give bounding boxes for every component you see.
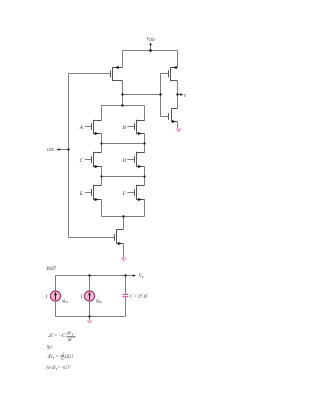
svg-text:E: E [79, 192, 83, 197]
svg-text:dVY: dVY [67, 331, 75, 337]
svg-text:M01: M01 [61, 299, 69, 304]
svg-text:CLK: CLK [47, 147, 54, 152]
svg-text:I: I [45, 295, 48, 300]
svg-text:VDD: VDD [146, 37, 155, 42]
svg-text:A: A [79, 126, 84, 131]
svg-text:C = 25 fF: C = 25 fF [130, 293, 148, 298]
svg-text:(2I) t: (2I) t [65, 354, 74, 360]
svg-text:M08: M08 [95, 299, 103, 304]
svg-text:F: F [122, 192, 127, 197]
svg-text:ΔVY = −: ΔVY = − [47, 355, 62, 360]
svg-text:D: D [121, 159, 126, 164]
svg-text:2I = −C: 2I = −C [48, 334, 65, 339]
svg-text:dt: dt [68, 337, 72, 342]
svg-text:I: I [80, 295, 83, 300]
svg-text:16.67: 16.67 [46, 266, 57, 272]
svg-text:For ΔVY = −0.5 V: For ΔVY = −0.5 V [45, 364, 70, 371]
svg-text:z: z [183, 92, 186, 98]
svg-text:So: So [47, 346, 53, 351]
svg-text:B: B [123, 126, 126, 131]
svg-text:VY: VY [139, 274, 145, 279]
svg-text:C: C [80, 159, 84, 164]
